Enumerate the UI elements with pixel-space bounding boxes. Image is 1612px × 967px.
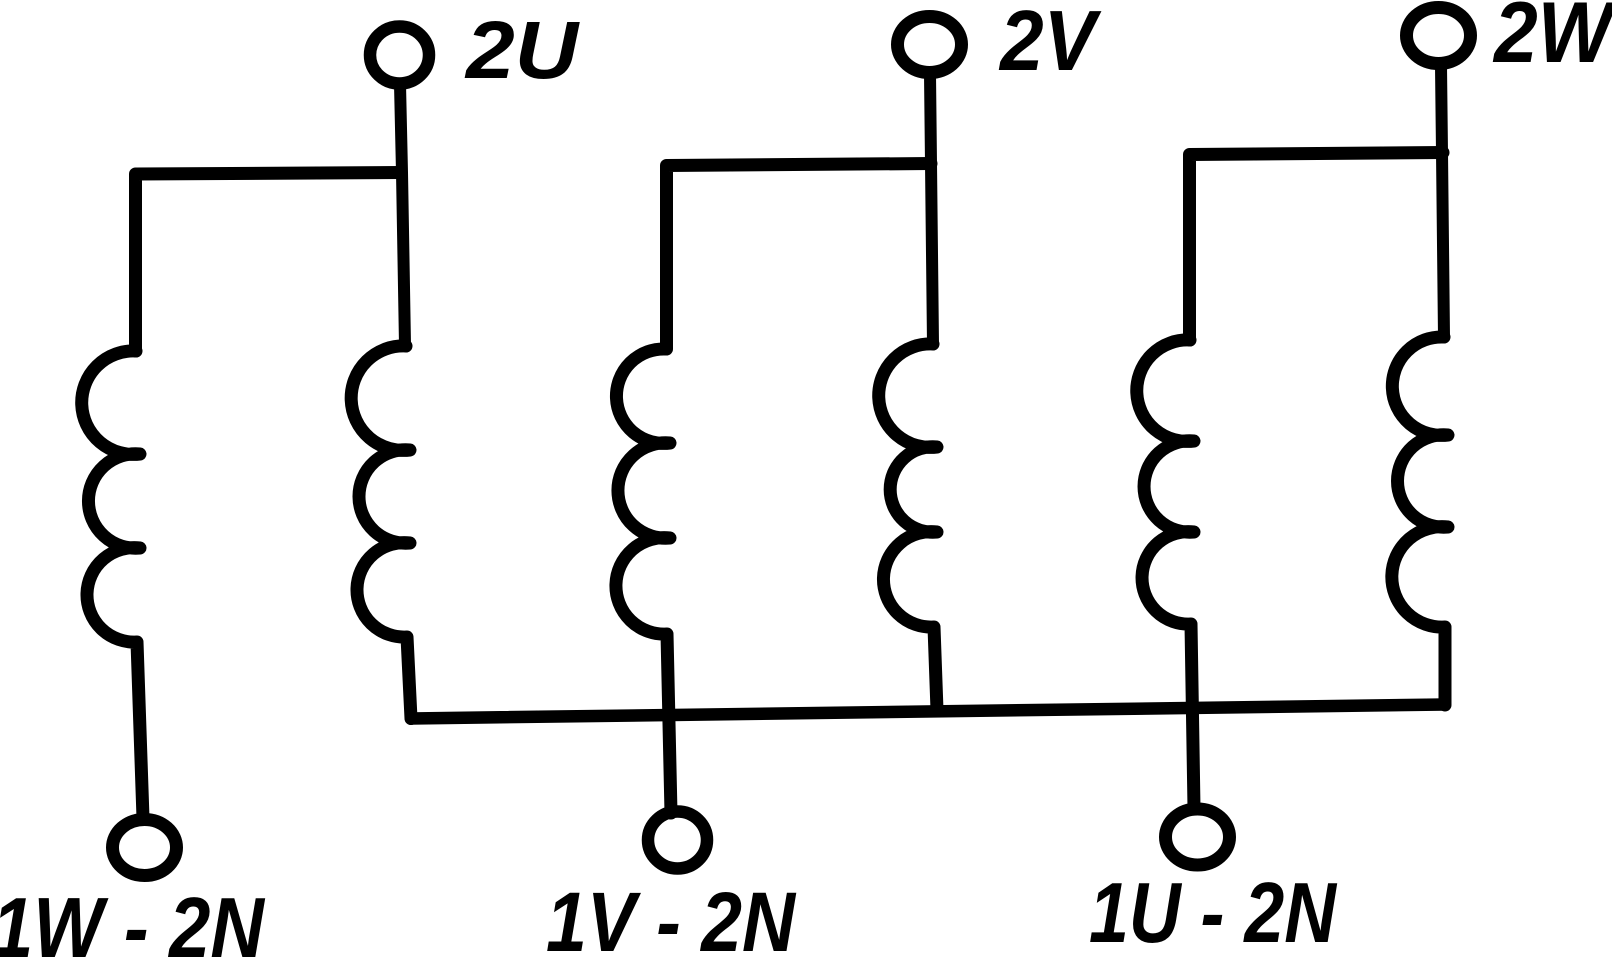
inductor winding L1 (phase 1 left coil) bbox=[82, 351, 143, 818]
svg-text:2U: 2U bbox=[464, 5, 580, 96]
svg-text:1V - 2N: 1V - 2N bbox=[546, 875, 797, 962]
inductor winding L3 (phase 3 left coil) bbox=[1137, 340, 1194, 808]
terminal circle 2V bbox=[898, 17, 962, 73]
terminal circle 1W-2N bbox=[113, 820, 177, 876]
wire: bottom neutral bus bbox=[411, 705, 1445, 719]
terminal stem 2V bbox=[930, 74, 933, 344]
terminal circle 2U bbox=[370, 27, 429, 84]
terminal circle 2W bbox=[1407, 8, 1471, 64]
terminal stem 2U bbox=[400, 84, 405, 345]
inductor winding L2 (phase 2 left coil) bbox=[616, 349, 671, 813]
svg-text:2W: 2W bbox=[1492, 0, 1612, 81]
terminal circle 1V-2N bbox=[648, 812, 707, 869]
terminal stem 2W bbox=[1441, 66, 1444, 337]
svg-text:2V: 2V bbox=[998, 0, 1102, 89]
inductor winding R3 (phase 3 right coil) bbox=[1392, 337, 1448, 705]
wire: section-2 top line and left vertical bbox=[667, 164, 932, 350]
svg-text:1U - 2N: 1U - 2N bbox=[1089, 866, 1337, 961]
inductor winding R1 (phase 1 right coil) bbox=[351, 346, 411, 719]
wire: section-3 top line and left vertical bbox=[1190, 153, 1444, 341]
svg-text:1W - 2N: 1W - 2N bbox=[0, 881, 265, 962]
terminal circle 1U-2N bbox=[1166, 809, 1230, 865]
inductor winding R2 (phase 2 right coil) bbox=[879, 344, 937, 710]
wire: section-1 top line and left vertical bbox=[136, 173, 402, 352]
